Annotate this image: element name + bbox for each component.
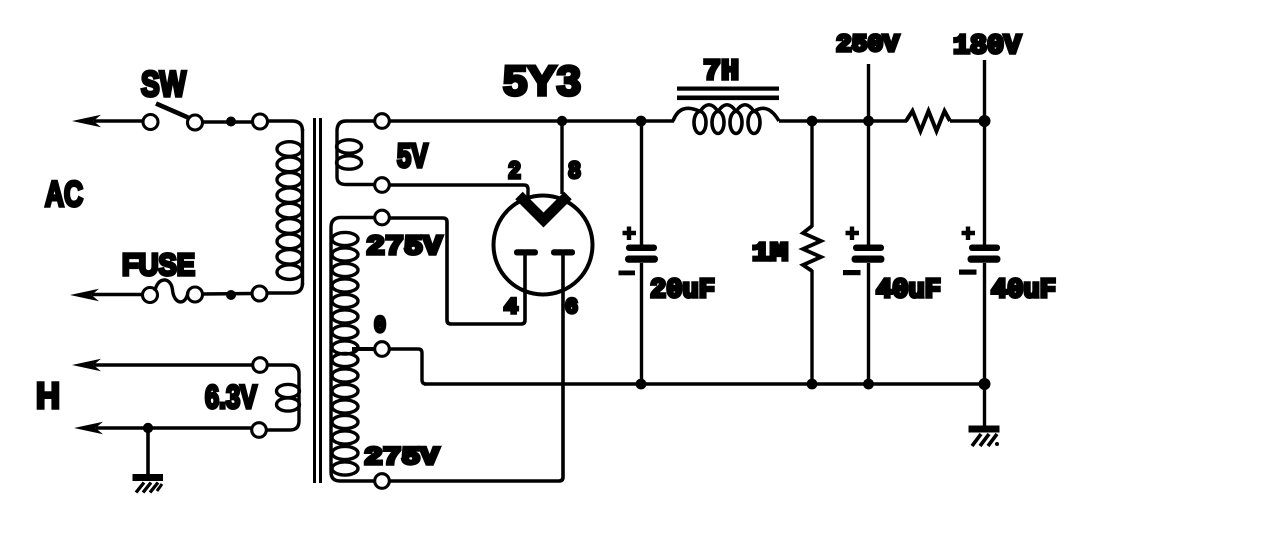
6.3V top terminal [253,358,268,373]
junction C2 bottom [863,379,874,390]
resistor R1 1M bleeder [803,121,821,384]
wire: heater bottom lead with arrow [74,422,251,434]
choke L1 core bars [677,87,779,91]
5V winding top terminal [375,114,390,129]
transformer T1 HV winding lower 275V [332,353,358,475]
capacitor C2 40uF [843,227,885,276]
fuse F1 left terminal [143,288,158,303]
wire: AC hot lead with arrow [72,115,142,127]
wire: pin 8 to B+ rail [560,121,563,194]
node 250V feed line [867,64,870,245]
junction on heater bottom wire [143,423,153,433]
wire: 275V bottom terminal to pin 6 (plate) [389,253,563,481]
junction on AC top wire [226,117,236,127]
junction R1 top [807,116,818,127]
wire: heater top lead with arrow [72,359,252,371]
svg-text:6: 6 [565,295,578,320]
junction pin 8 / top rail [557,116,567,126]
wire: AC neutral lead with arrow [70,289,142,301]
svg-text:1M: 1M [752,238,788,268]
wire: choke to 250V node [779,119,907,122]
transformer T1 core [315,118,321,483]
switch SW left terminal [143,115,158,130]
transformer T1 6.3V heater winding [267,365,300,430]
switch SW blade [156,104,188,118]
svg-text:SW: SW [141,65,186,104]
wire: fuse to junction [203,292,252,296]
U1 plate left (pin 4) [514,249,538,255]
capacitor C3 40uF [959,227,1001,275]
junction C1 bottom [636,379,647,390]
svg-text:H: H [36,375,60,416]
wire: 275V top terminal to pin 4 (plate) [389,218,525,324]
6.3V bottom terminal [252,423,267,438]
svg-text:AC: AC [45,175,83,214]
junction on AC bottom wire [226,290,236,300]
resistor R2 (dropping resistor) [906,111,950,131]
ground (output filter) [969,426,1000,447]
svg-text:0: 0 [374,313,386,339]
transformer T1 primary winding [277,129,303,285]
svg-text:40uF: 40uF [991,276,1056,306]
wire: terminal to transformer primary bottom [267,283,303,293]
svg-text:275V: 275V [366,233,443,263]
svg-text:250V: 250V [836,32,900,59]
ground rail (bottom) [424,382,985,385]
svg-text:20uF: 20uF [650,276,715,306]
5V winding bottom terminal [375,178,390,193]
U1 filament chevron [519,196,568,221]
center tap terminal [375,342,390,357]
svg-text:180V: 180V [953,32,1022,62]
fuse F1 element [155,280,188,302]
svg-text:5V: 5V [397,137,428,174]
transformer T1 HV winding upper 275V [331,218,374,482]
junction 250V node on rail [863,116,874,127]
node 180V line [983,60,986,245]
switch SW right terminal [188,115,203,130]
junction C3 / ground [979,378,991,390]
wire: terminal to transformer primary top [268,121,303,131]
fuse F1 right terminal [188,287,203,302]
transformer T1 5V winding [337,121,375,185]
junction R1 bottom [807,379,818,390]
275V bottom terminal [375,474,390,489]
terminal circle at primary top [253,114,268,129]
U1 plate right (pin 6) [551,249,575,255]
wire: pin 2 from 5V winding [389,185,528,196]
wire: center tap to ground rail [389,349,426,384]
wire: B+ top rail, 5V top terminal to choke [389,119,674,122]
275V top terminal [375,210,390,225]
svg-text:4: 4 [504,295,518,320]
terminal circle at primary bottom [252,286,267,301]
svg-text:40uF: 40uF [876,276,941,306]
svg-text:7H: 7H [703,55,739,88]
svg-text:2: 2 [508,159,521,186]
transformer T1 HV center tap 0 [352,347,374,351]
svg-text:FUSE: FUSE [122,247,195,282]
junction C1 top [636,116,647,127]
choke L1 coil [673,105,779,134]
svg-text:5Y3: 5Y3 [503,57,581,104]
ground (heater) [133,428,164,493]
wire: switch to junction [203,120,252,123]
wire: resistor to 180V node [950,119,985,122]
capacitor C1 20uF [619,121,659,384]
svg-text:275V: 275V [364,443,439,472]
junction 180V node on rail [979,115,991,127]
svg-text:6.3V: 6.3V [205,379,258,415]
svg-text:8: 8 [568,159,581,186]
rectifier tube U1 5Y3 envelope [494,196,593,295]
